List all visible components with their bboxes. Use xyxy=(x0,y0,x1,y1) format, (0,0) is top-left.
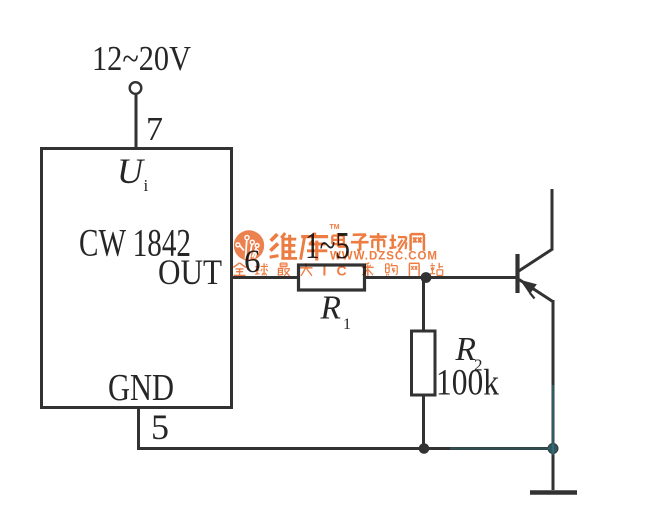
svg-text:OUT: OUT xyxy=(158,252,222,292)
svg-text:I: I xyxy=(323,263,327,279)
svg-text:1: 1 xyxy=(343,316,351,333)
svg-text:5: 5 xyxy=(151,407,169,447)
svg-text:i: i xyxy=(144,176,149,195)
svg-text:7: 7 xyxy=(146,111,163,148)
svg-text:100k: 100k xyxy=(436,363,499,404)
svg-text:TM: TM xyxy=(330,224,340,231)
svg-text:U: U xyxy=(117,151,145,191)
svg-text:WWW.DZSC.COM: WWW.DZSC.COM xyxy=(330,251,437,263)
svg-text:R: R xyxy=(320,290,341,327)
svg-text:GND: GND xyxy=(108,367,174,409)
svg-text:C: C xyxy=(337,263,347,279)
svg-text:12~20V: 12~20V xyxy=(92,39,191,78)
